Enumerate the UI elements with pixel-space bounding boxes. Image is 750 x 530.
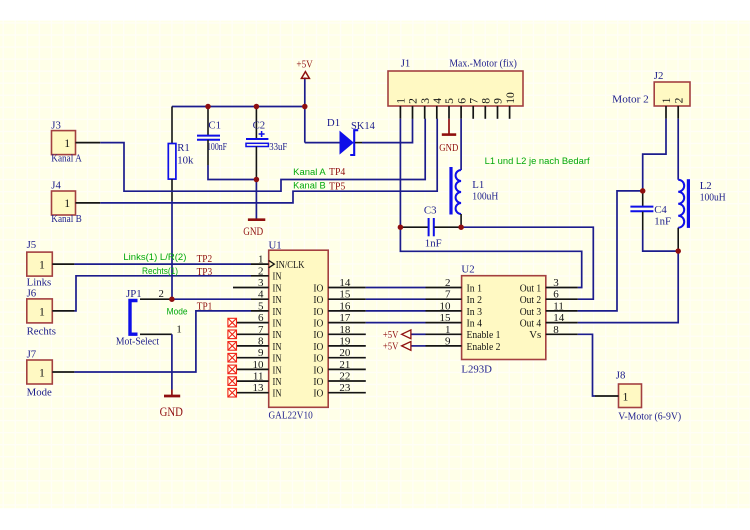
- wire JP1 pin1 to ground: [171, 334, 173, 389]
- +5V symbol top: [301, 72, 309, 79]
- svg-text:IN: IN: [273, 294, 282, 306]
- U2 right pin numbers: [553, 277, 565, 336]
- connector J3: [51, 119, 100, 164]
- U1 left wired stubs: [251, 264, 269, 311]
- svg-text:1nF: 1nF: [654, 216, 671, 228]
- connector J8: [595, 370, 682, 423]
- svg-text:GND: GND: [439, 142, 458, 154]
- U1 pin names: [273, 259, 305, 400]
- jumper JP1: [116, 288, 182, 348]
- U2 left pin stubs: [426, 288, 462, 346]
- ground under JP1: [164, 390, 180, 397]
- svg-text:J5: J5: [27, 239, 37, 251]
- svg-text:GND: GND: [160, 405, 184, 419]
- U1 no-connect pins with X marks: [228, 318, 269, 397]
- svg-text:10: 10: [504, 92, 517, 104]
- svg-text:6: 6: [455, 98, 468, 104]
- svg-text:In 4: In 4: [467, 318, 483, 330]
- connector J4: [51, 179, 100, 225]
- svg-text:In 2: In 2: [467, 294, 483, 306]
- svg-text:J6: J6: [27, 287, 37, 299]
- svg-text:1: 1: [395, 98, 408, 104]
- junction node Mode JP1: [169, 296, 175, 302]
- svg-text:Kanal A: Kanal A: [51, 153, 82, 165]
- junction node GND C1 C2: [254, 177, 260, 183]
- connector J7: [27, 348, 75, 398]
- svg-text:Out 4: Out 4: [520, 318, 542, 330]
- capacitor C4: [630, 191, 671, 230]
- svg-text:J8: J8: [616, 370, 626, 382]
- svg-text:IO: IO: [313, 329, 323, 341]
- svg-text:IN: IN: [273, 353, 282, 365]
- svg-text:IN: IN: [273, 341, 282, 353]
- svg-text:TP3: TP3: [197, 266, 213, 278]
- svg-text:IO: IO: [313, 376, 323, 388]
- svg-text:TP2: TP2: [197, 253, 213, 265]
- wire +5V top bus: [172, 106, 305, 108]
- svg-text:D1: D1: [327, 117, 340, 129]
- inductor L2: [678, 179, 726, 251]
- svg-text:Mot-Select: Mot-Select: [116, 336, 159, 348]
- svg-text:In 3: In 3: [467, 306, 483, 318]
- U2 right pin stubs: [546, 288, 578, 335]
- svg-text:Links(1) L/R(2): Links(1) L/R(2): [123, 252, 186, 262]
- wire J1 pin6 to L1: [460, 119, 462, 170]
- svg-text:8: 8: [480, 98, 493, 104]
- wires U1 IO14-17 to U2 In1-In4: [366, 288, 426, 323]
- svg-text:4: 4: [431, 98, 444, 104]
- svg-text:100nF: 100nF: [207, 141, 227, 153]
- U2 left pin numbers: [440, 277, 452, 347]
- ground under C2: [248, 180, 265, 220]
- junction node C3 right: [458, 224, 464, 230]
- U2 pin names: [467, 282, 542, 352]
- wire J1 pin1 to C3 node: [399, 119, 401, 227]
- svg-text:GND: GND: [243, 226, 263, 238]
- svg-text:Rechts(1): Rechts(1): [142, 266, 178, 276]
- svg-text:1: 1: [176, 323, 181, 335]
- svg-text:Enable 2: Enable 2: [467, 341, 501, 353]
- svg-text:L293D: L293D: [461, 364, 492, 376]
- wire Kanal B net: [100, 119, 437, 203]
- svg-text:V-Motor (6-9V): V-Motor (6-9V): [618, 410, 681, 422]
- svg-text:IN: IN: [273, 306, 282, 318]
- U1 right pin numbers: [339, 277, 351, 394]
- svg-text:2: 2: [672, 97, 685, 103]
- svg-text:+5V: +5V: [383, 329, 399, 341]
- svg-text:IO: IO: [313, 353, 323, 365]
- svg-text:Enable 1: Enable 1: [467, 329, 501, 341]
- junction node C4 top: [640, 188, 646, 194]
- svg-text:100uH: 100uH: [700, 192, 726, 204]
- wire Kanal A net: [100, 119, 425, 192]
- svg-text:Out 2: Out 2: [520, 294, 542, 306]
- wire J6 to U1 pin2: [74, 276, 251, 311]
- svg-text:2: 2: [407, 98, 420, 104]
- wire J5 to U1 pin1: [74, 263, 251, 265]
- svg-text:TP1: TP1: [197, 301, 213, 313]
- svg-text:J7: J7: [27, 348, 37, 360]
- op-amp U1 GAL22V10 box: [269, 239, 329, 421]
- svg-text:+5V: +5V: [383, 341, 399, 353]
- U1 left pin numbers: [253, 254, 265, 395]
- svg-text:Out 3: Out 3: [520, 306, 542, 318]
- wire D1 cathode to J1 pin2: [362, 119, 413, 143]
- svg-text:SK14: SK14: [351, 120, 375, 132]
- wire C4 bottom to node: [643, 230, 679, 251]
- connector J1: [388, 57, 523, 118]
- svg-text:IN: IN: [273, 364, 282, 376]
- svg-text:J2: J2: [654, 70, 664, 82]
- U1 pin3 stub: [233, 287, 269, 289]
- svg-text:7: 7: [467, 98, 480, 104]
- connector J6: [27, 287, 75, 337]
- svg-text:TP4: TP4: [329, 166, 346, 178]
- wire C1 bottom to GND node: [208, 165, 256, 180]
- svg-text:1: 1: [64, 136, 70, 150]
- svg-text:J3: J3: [51, 119, 61, 131]
- svg-text:IN: IN: [273, 271, 282, 283]
- svg-text:Kanal A: Kanal A: [293, 167, 326, 177]
- svg-text:Vs: Vs: [529, 329, 541, 341]
- ground at J1 pin5: [442, 119, 456, 135]
- svg-text:TP5: TP5: [329, 180, 345, 192]
- wire U2 Out3 to J2 node: [578, 191, 643, 311]
- connector J5: [27, 239, 75, 288]
- svg-text:IO: IO: [313, 294, 323, 306]
- svg-text:IN/CLK: IN/CLK: [276, 259, 305, 271]
- svg-text:C1: C1: [208, 119, 221, 131]
- svg-text:GAL22V10: GAL22V10: [269, 410, 313, 422]
- svg-text:1nF: 1nF: [425, 237, 442, 249]
- connector J2: [612, 70, 690, 119]
- svg-text:Max.-Motor (fix): Max.-Motor (fix): [449, 57, 517, 69]
- wire U2 Vs to J8: [578, 334, 595, 396]
- resistor R1: [168, 107, 194, 202]
- svg-text:JP1: JP1: [126, 288, 142, 300]
- svg-text:In 1: In 1: [467, 282, 483, 294]
- +5V supply arrow at U2 enable: [383, 341, 426, 353]
- svg-text:IO: IO: [313, 388, 323, 400]
- svg-text:3: 3: [419, 98, 432, 104]
- capacitor C2: [246, 107, 287, 180]
- svg-text:C2: C2: [253, 119, 266, 131]
- inductor L1: [451, 167, 498, 227]
- svg-text:IN: IN: [273, 282, 282, 294]
- diode D1: [305, 117, 376, 155]
- svg-text:+5V: +5V: [296, 59, 313, 71]
- svg-text:L2: L2: [700, 180, 712, 192]
- svg-text:IO: IO: [313, 341, 323, 353]
- svg-text:IN: IN: [273, 388, 282, 400]
- op-amp U2 L293D box: [461, 263, 545, 375]
- svg-text:100uH: 100uH: [472, 190, 498, 202]
- wire J2 pin2 to L2: [677, 119, 679, 180]
- svg-text:IN: IN: [273, 318, 282, 330]
- wire L1 node to U2 Out2: [461, 227, 593, 299]
- svg-text:9: 9: [492, 98, 505, 104]
- U1 pin1 clock wedge: [269, 260, 275, 267]
- wire Mode node to U1 pin4: [172, 298, 251, 300]
- svg-text:L1: L1: [472, 179, 484, 191]
- svg-text:IO: IO: [313, 318, 323, 330]
- svg-text:Rechts: Rechts: [27, 325, 56, 337]
- wire R1 bottom to Mode node: [171, 201, 173, 299]
- svg-text:C4: C4: [654, 204, 667, 216]
- wire C3 node to U2 Out1: [400, 227, 581, 287]
- svg-text:U2: U2: [461, 263, 474, 275]
- svg-text:Out 1: Out 1: [520, 282, 542, 294]
- wire J2 pin1 to C4 top node: [643, 119, 666, 191]
- junction node top bus at C1: [205, 104, 211, 110]
- svg-text:Mode: Mode: [27, 387, 52, 399]
- capacitor C1: [197, 107, 227, 166]
- +5V supply arrow at U2 enable: [383, 329, 426, 341]
- svg-text:IO: IO: [313, 364, 323, 376]
- svg-text:Motor 2: Motor 2: [612, 94, 649, 106]
- svg-text:1: 1: [39, 305, 45, 319]
- capacitor C3: [400, 204, 461, 249]
- svg-text:J4: J4: [51, 179, 61, 191]
- svg-text:IN: IN: [273, 329, 282, 341]
- svg-text:R1: R1: [177, 142, 190, 154]
- wire J7 to U1 pin5: [74, 311, 251, 372]
- junction node top bus at C2: [254, 104, 260, 110]
- svg-text:1: 1: [623, 389, 629, 403]
- U1 right pin stubs: [328, 288, 366, 393]
- svg-text:IN: IN: [273, 376, 282, 388]
- svg-text:1: 1: [660, 97, 673, 103]
- svg-text:1: 1: [39, 258, 45, 272]
- svg-text:J1: J1: [401, 57, 411, 69]
- svg-text:33uF: 33uF: [269, 141, 287, 153]
- svg-text:U1: U1: [269, 239, 282, 251]
- svg-text:1: 1: [64, 196, 70, 210]
- junction node C4 bottom: [675, 248, 681, 254]
- svg-text:IO: IO: [313, 306, 323, 318]
- svg-text:10k: 10k: [177, 155, 194, 167]
- svg-text:L1 und L2 je nach Bedarf: L1 und L2 je nach Bedarf: [485, 156, 591, 166]
- junction node C3 left: [398, 224, 404, 230]
- svg-text:Kanal B: Kanal B: [51, 213, 82, 225]
- svg-text:Kanal B: Kanal B: [293, 181, 326, 191]
- svg-text:5: 5: [443, 98, 456, 104]
- svg-text:1: 1: [39, 366, 45, 380]
- svg-text:IO: IO: [313, 282, 323, 294]
- junction node top bus at +5V: [302, 104, 308, 110]
- svg-text:C3: C3: [424, 204, 437, 216]
- svg-text:Mode: Mode: [167, 307, 188, 317]
- wire U2 Out4 to C4 bottom node: [578, 251, 678, 323]
- wire +5V stem down to D1: [304, 78, 306, 143]
